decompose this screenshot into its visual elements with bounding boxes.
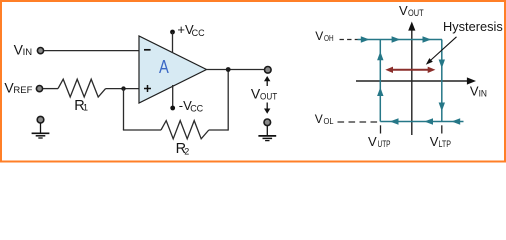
wire junction down to R2 [123, 89, 125, 130]
wire VIN to op-amp inverting input [44, 50, 139, 52]
label VOUT (output) [251, 86, 277, 103]
svg-text:V: V [368, 134, 377, 149]
ground (below VOUT) [258, 126, 276, 141]
op-amp U1 (A) [139, 36, 207, 103]
svg-text:OUT: OUT [260, 91, 277, 102]
resistor R1 [58, 79, 106, 97]
wire R2 left lead [123, 129, 161, 131]
axis VIN (horizontal) [356, 77, 476, 84]
wire VREF to R1 [43, 88, 58, 90]
wire R2 right lead to output node [209, 129, 228, 131]
svg-text:1: 1 [83, 103, 88, 113]
svg-text:OH: OH [324, 33, 334, 43]
label VREF [4, 80, 32, 97]
svg-text:CC: CC [190, 103, 203, 113]
wire op-amp output [207, 69, 265, 71]
svg-text:UTP: UTP [378, 139, 391, 149]
label VUTP [368, 134, 391, 149]
svg-text:V: V [470, 83, 479, 98]
svg-text:REF: REF [13, 85, 32, 96]
svg-text:IN: IN [23, 47, 33, 58]
terminal VOUT bottom [264, 119, 271, 126]
svg-text:V: V [315, 112, 323, 126]
svg-text:Hysteresis: Hysteresis [443, 19, 503, 34]
label VLTP [430, 134, 451, 149]
junction node at R1 / R2 / + input [121, 86, 125, 90]
svg-text:V: V [399, 3, 408, 18]
junction output node [226, 67, 231, 72]
ground (below VREF) [32, 116, 50, 138]
svg-text:OL: OL [324, 116, 334, 126]
axis VOUT (vertical) [408, 22, 415, 136]
label VOH [315, 29, 333, 43]
svg-text:OUT: OUT [408, 8, 424, 18]
svg-text:A: A [159, 56, 169, 77]
power +VCC [170, 22, 205, 53]
resistor R2 [161, 121, 209, 139]
hysteresis loop left segment [377, 40, 383, 122]
hysteresis loop bottom segment (VOL level) [380, 118, 463, 124]
hysteresis width arrow (maroon) [385, 67, 435, 73]
svg-text:V: V [430, 134, 439, 149]
arrow down toward ground terminal [264, 103, 270, 114]
dashed level VOH [340, 39, 358, 41]
hysteresis loop top segment (VOH level) [358, 36, 443, 42]
tick VUTP [380, 125, 382, 133]
svg-text:LTP: LTP [439, 139, 452, 149]
svg-text:CC: CC [192, 28, 205, 38]
terminal VOUT top [265, 67, 272, 74]
label VIN axis [470, 83, 487, 98]
label VOL [315, 112, 334, 126]
svg-text:IN: IN [479, 88, 487, 98]
svg-text:2: 2 [184, 147, 189, 157]
power -VCC [170, 85, 203, 113]
svg-text:V: V [315, 29, 323, 43]
label R2 [176, 141, 190, 157]
hysteresis loop right segment [439, 40, 445, 122]
label R1 [74, 98, 88, 114]
wire R1 to non-inverting input [106, 88, 139, 90]
tick VLTP [441, 125, 443, 133]
annotation arrow from Hysteresis label to width arrow [426, 37, 457, 65]
dashed level VOL [338, 121, 381, 123]
label VOUT axis [399, 3, 424, 18]
border frame [1, 1, 505, 162]
arrow up toward VOUT terminal [264, 76, 270, 86]
label VIN [14, 42, 33, 59]
terminal VIN [37, 48, 43, 54]
terminal VREF [36, 86, 42, 92]
